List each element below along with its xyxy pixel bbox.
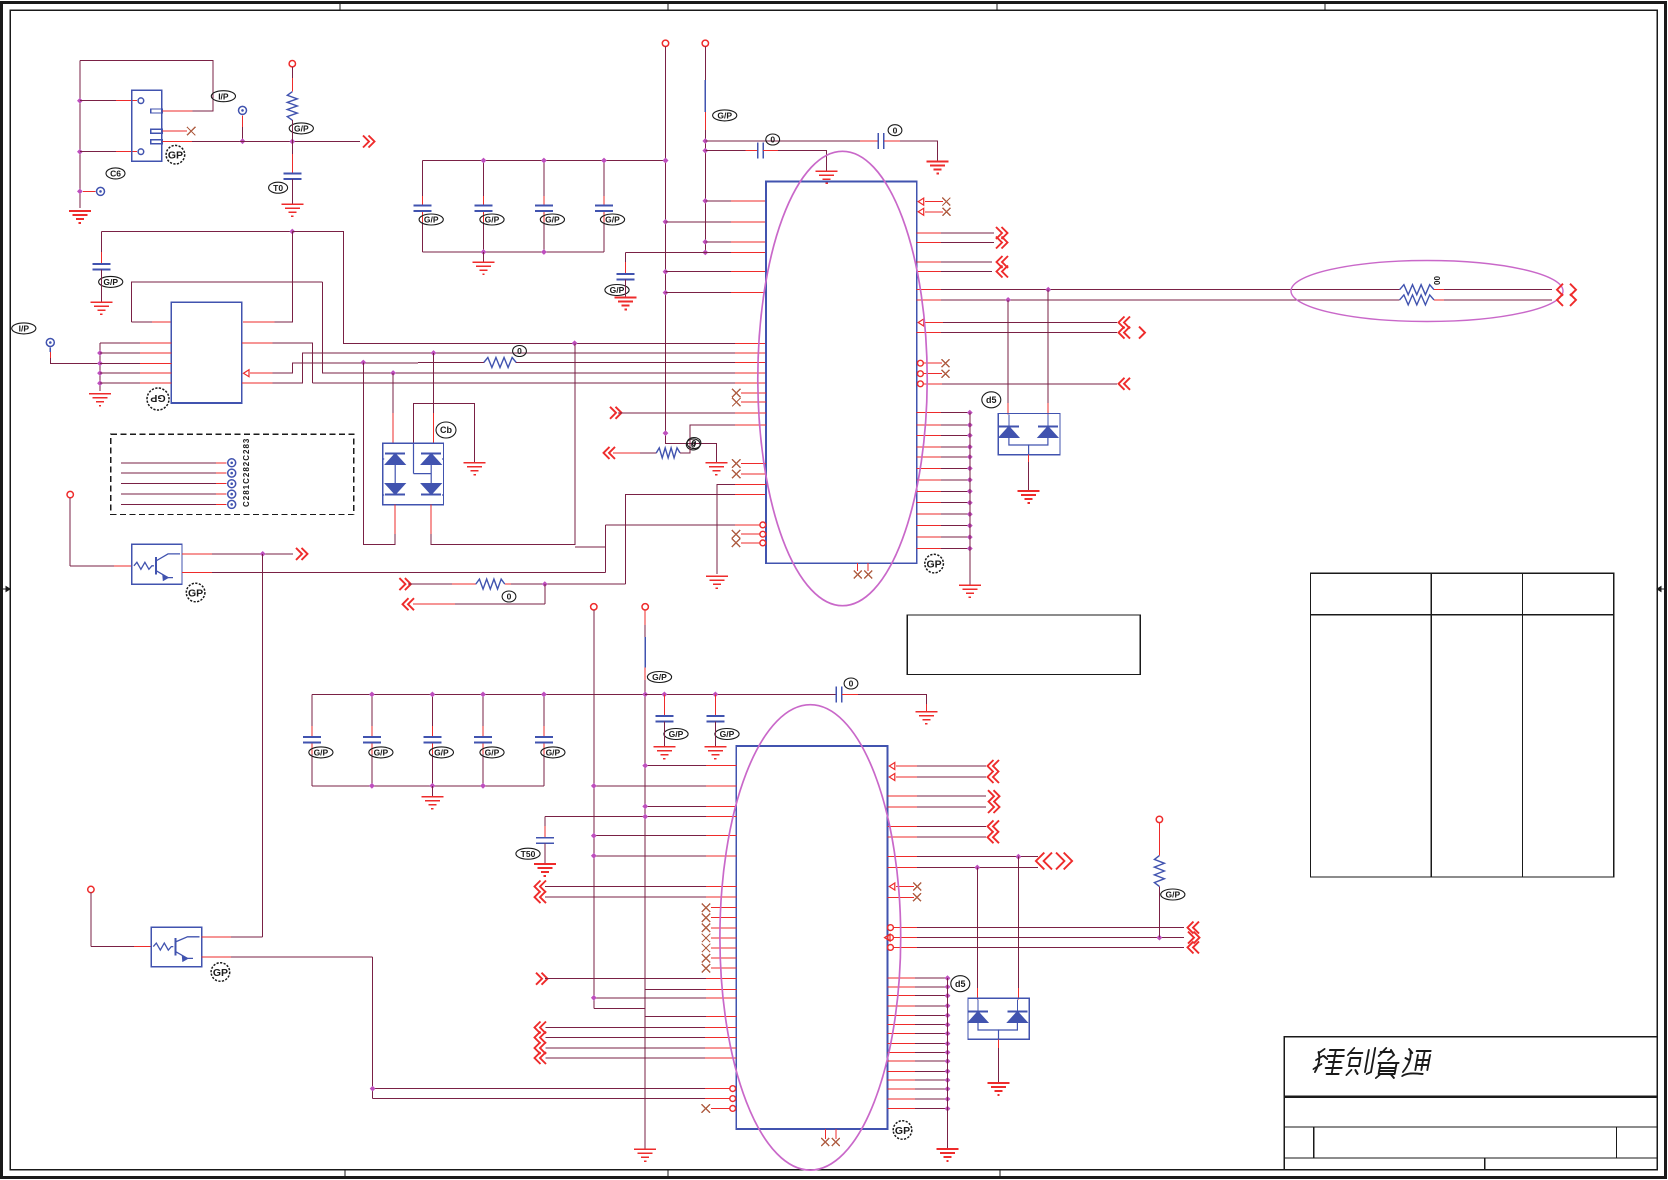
junction ext 2 — [713, 692, 719, 698]
diode D2b — [1038, 427, 1058, 438]
wire cap CB row — [705, 150, 745, 152]
wire R4 row — [613, 452, 640, 454]
wire bus line1 to IC1 — [344, 231, 735, 343]
label GP of J1 — [166, 145, 185, 164]
wire U2 pin y1098 — [373, 1098, 706, 1100]
pin circle U1 y363 — [918, 360, 924, 366]
wire cap bank bottom bus — [423, 251, 604, 253]
clk pin U1 y211 — [918, 208, 924, 215]
wire R4 to pin — [680, 425, 735, 453]
wire U2 pin y897 — [545, 896, 706, 898]
junction vertA end — [663, 430, 669, 436]
wire cap CA row — [705, 140, 860, 142]
label G/P CC — [605, 285, 629, 296]
label T50 CG — [516, 848, 540, 859]
wire U2 out y867 — [888, 867, 917, 869]
label Cb bridge — [436, 422, 456, 438]
junction y290 — [1045, 287, 1051, 293]
ground G4 below Q3 bus — [89, 394, 111, 406]
label CF — [844, 678, 858, 689]
junction U2 bus pin 11 — [945, 1068, 951, 1074]
junction U2 bus pin 3 — [945, 993, 951, 999]
no-connect stub U2 nc6 — [702, 954, 711, 963]
junction U2 bus pin 8 — [945, 1041, 951, 1047]
label I/P left edge — [12, 323, 36, 334]
wire U2 out y826 — [888, 825, 917, 827]
border zone tick bottom 1 — [344, 1170, 346, 1178]
label G/P blue seg — [713, 110, 737, 121]
junction bank top 4 — [663, 158, 669, 164]
no-connect stub U2 y1108 — [701, 1104, 710, 1113]
off-page arrow U2 ch2 — [535, 1032, 547, 1044]
wire R1 top — [291, 67, 293, 78]
wire Q3 left pin 5 — [100, 382, 140, 384]
off-page arrow U2 y897 — [535, 891, 547, 903]
connector point CP2 — [239, 106, 247, 114]
svg-text:GP: GP — [168, 150, 183, 162]
junction U2 bus pin 13 — [945, 1086, 951, 1092]
off-page arrows R6 end — [1557, 294, 1563, 306]
svg-text:G/P: G/P — [294, 123, 309, 133]
junction U1 bus pin 11 — [967, 523, 973, 529]
ground G1 below J1 — [69, 211, 91, 223]
wire loop down to Q3 right — [274, 232, 292, 323]
wire option pin 5 — [121, 503, 216, 505]
wire bottom vertical A — [593, 610, 595, 1008]
label G/P R7 — [1161, 889, 1185, 900]
junction line3 bridge — [360, 360, 366, 366]
title block line2 — [1284, 1126, 1657, 1128]
wire C12 column — [543, 161, 545, 197]
wire Q2 out2 — [202, 956, 231, 958]
junction A y292 — [663, 290, 669, 296]
junction y857 — [1016, 854, 1022, 860]
junction x594 y998 — [591, 995, 597, 1001]
junction B y141 — [702, 138, 708, 144]
label R2 on line3 — [513, 346, 527, 357]
wire C22 column — [431, 694, 433, 726]
svg-text:G/P: G/P — [485, 215, 500, 225]
junction U2 bus pin 10 — [945, 1058, 951, 1064]
no-connect stub U1 bottom 1 — [857, 563, 859, 571]
ground G20 U2 bus — [937, 1149, 959, 1161]
wire inter-transistor vertical — [262, 554, 264, 937]
wire Q2 out1 up — [202, 936, 231, 938]
wire U1 bus pin 6 — [917, 467, 941, 469]
label C near G10 — [686, 439, 700, 450]
connector point option 3 — [228, 480, 236, 488]
wire Q1 out1 — [182, 553, 212, 555]
wire U2 pin y786 — [594, 785, 706, 787]
capacitor C11 — [475, 206, 493, 212]
clk pin U1 y322 — [918, 319, 924, 326]
wire R6 out — [1434, 299, 1444, 301]
junction bank2 bottom 3 — [480, 783, 486, 789]
ground G5 bridge — [464, 463, 486, 475]
ground G9 below CC — [615, 298, 637, 310]
wire U2 bus pin 13 — [888, 1088, 915, 1090]
ground G6 cap bank — [473, 262, 495, 274]
wire U2 pin y765 — [645, 765, 706, 767]
wire U1 pin y484 — [717, 485, 735, 574]
wire cap bank top bus — [423, 160, 666, 162]
off-page arrow U2 y978 — [536, 973, 548, 985]
no-connect stub U2 nc7 — [702, 964, 711, 973]
wire Q3 left pin 4 — [100, 372, 140, 374]
svg-text:I/P: I/P — [19, 323, 30, 333]
wire CG ground — [544, 843, 546, 864]
junction bank top 2 — [541, 158, 547, 164]
wire D3 ground — [998, 1039, 1000, 1048]
svg-text:G/P: G/P — [424, 215, 439, 225]
junction x645 y817 — [642, 814, 648, 820]
junction U1 bus pin 4 — [967, 444, 973, 450]
wire Q3 right pin3 — [242, 382, 273, 384]
connector point option 5 — [228, 500, 236, 508]
pin circle U1 y383 — [918, 381, 924, 387]
off-page arrow U2r y837 — [988, 831, 1000, 843]
capacitor C12 — [535, 206, 553, 212]
wire second loop y282 — [132, 282, 323, 322]
ground G12 U1 bus — [959, 585, 981, 597]
wire top loop to Q3 right pin — [101, 231, 292, 233]
pin circle U2 y1088 — [730, 1086, 736, 1092]
no-connect stub U1 y474 — [732, 470, 741, 479]
capacitor CD — [655, 716, 673, 722]
label C6 below J1 — [106, 168, 125, 179]
svg-text:d5: d5 — [955, 979, 966, 989]
off-page arrow y322 — [1119, 317, 1131, 329]
junction bank bottom 1 — [481, 249, 487, 255]
resistor R3 — [476, 579, 505, 589]
diode bridge inner rails — [374, 443, 443, 483]
wire U2 pin y1016 — [594, 1007, 645, 1009]
junction top loop — [289, 229, 295, 235]
title block outline — [1284, 1037, 1657, 1170]
title block divider c — [1484, 1158, 1486, 1170]
connector point CP3 — [46, 339, 54, 347]
off-page arrow U2r y796 — [988, 790, 1000, 802]
junction B y200 — [702, 198, 708, 204]
pin circle U1 y543 — [760, 540, 766, 546]
capacitor C23 — [474, 737, 492, 743]
net ellipse highlight right — [1291, 261, 1563, 322]
capacitor CF series — [836, 686, 842, 702]
junction U1 bus pin 12 — [967, 534, 973, 540]
ground G2 below C2 — [281, 204, 303, 216]
wire J1 tab3 to node — [163, 141, 193, 143]
diode D2a — [999, 427, 1019, 438]
wire cap CG drop — [544, 817, 546, 826]
power terminal bottom B — [642, 604, 648, 610]
svg-text:G/P: G/P — [669, 729, 684, 739]
junction U2 bus pin 9 — [945, 1050, 951, 1056]
diode D1c — [385, 484, 405, 495]
off-page arrow U1 y412 — [610, 407, 622, 419]
off-page arrow right y141 — [363, 136, 375, 148]
svg-text:I/P: I/P — [218, 91, 229, 101]
diode array D1 body — [383, 443, 444, 504]
title block line3 — [1284, 1157, 1657, 1159]
no-connect stub U2 nc2 — [702, 913, 711, 922]
svg-text:G/P: G/P — [720, 729, 735, 739]
wire C10 column — [422, 161, 424, 197]
border zone tick top 3 — [996, 3, 998, 11]
clk pin U2 y766 — [889, 763, 895, 770]
junction ext 1 — [662, 692, 668, 698]
capacitor C24 — [535, 737, 553, 743]
svg-text:0: 0 — [692, 438, 697, 448]
label G/P C11 — [480, 214, 504, 225]
junction A y221 — [663, 219, 669, 225]
junction U2 bus pin 2 — [945, 984, 951, 990]
svg-text:G/P: G/P — [1165, 890, 1180, 900]
wire U2 bus pin 11 — [888, 1070, 915, 1072]
wire U2 pin y998 — [594, 997, 706, 999]
power terminal bottom A — [591, 604, 597, 610]
wire C23 column — [482, 694, 484, 726]
label G/P blue seg2 — [647, 672, 671, 683]
no-connect stub U2 nc1 — [702, 903, 711, 912]
off-page arrow y233 — [996, 227, 1008, 239]
wire vertA ground leg — [666, 433, 717, 462]
wire D3 left drop — [976, 868, 978, 989]
off-page arrow U2 y886 — [535, 881, 547, 893]
svg-text:GP: GP — [150, 392, 165, 404]
table outline — [1311, 573, 1614, 877]
junction y937 — [1157, 935, 1163, 941]
capacitor C20 — [303, 737, 321, 743]
wire U2 bus pin 5 — [888, 1014, 915, 1016]
pin circle U1 y525 — [760, 522, 766, 528]
junction U2 bus pin 14 — [945, 1096, 951, 1102]
wire C13 column — [603, 161, 605, 197]
junction U1 bus pin 10 — [967, 511, 973, 517]
transistor Q1 symbol — [134, 554, 180, 580]
wire J1 left vertical — [79, 60, 81, 208]
wire U1 bus pin 8 — [917, 490, 941, 492]
diode pair D2 inner — [1009, 438, 1048, 455]
power terminal top B — [702, 40, 708, 46]
wire U1 out y332 — [917, 332, 941, 334]
label CA — [888, 125, 902, 136]
junction A y271 — [663, 269, 669, 275]
junction bank2 bottom 1 — [369, 783, 375, 789]
IC U1 highlight ellipse — [758, 151, 927, 605]
wire bus line2 to IC1 — [312, 352, 735, 354]
off-page arrow out R3b — [403, 598, 415, 610]
ground G17 CF — [915, 712, 937, 724]
wire U2 bus pin 14 — [888, 1098, 915, 1100]
wire CP2 drop — [242, 116, 244, 128]
svg-text:G/P: G/P — [610, 285, 625, 295]
off-page arrow in R3 — [399, 578, 411, 590]
border zone tick top 2 — [667, 3, 669, 11]
ground G16 CE — [704, 747, 726, 759]
svg-text:G/P: G/P — [545, 215, 560, 225]
wire CP1 — [83, 190, 96, 192]
pin circle U1 y373 — [918, 371, 924, 377]
label R4 — [687, 438, 701, 449]
wire bus line4 to IC1 — [322, 282, 735, 373]
junction Q2 branch — [370, 1086, 376, 1092]
clk pin U2 y777 — [889, 774, 895, 781]
junction bus2 — [97, 350, 103, 356]
wire U2 pin ch2 — [546, 1037, 706, 1039]
label I/P near J1 — [211, 91, 235, 102]
svg-text:G/P: G/P — [717, 110, 732, 120]
junction y867 — [974, 865, 980, 871]
junction bank2 bottom 2 — [430, 783, 436, 789]
clk pin circle U2 y937 — [885, 934, 891, 941]
junction U2 bus pin 6 — [945, 1022, 951, 1028]
wire U2 bus pin 2 — [888, 986, 915, 988]
wire U1 bus pin 4 — [917, 446, 941, 448]
wire cap bank2 bottom bus — [312, 785, 544, 787]
label G/P C20 — [309, 747, 333, 758]
wire option pin 1 — [121, 462, 216, 464]
no-connect stub U1 y543 — [732, 539, 741, 548]
wire IC1 pin y201 — [705, 200, 731, 202]
svg-text:C6: C6 — [110, 168, 121, 178]
capacitor CC — [617, 274, 635, 280]
border zone tick top 4 — [1324, 3, 1326, 11]
power terminal above R1 — [289, 61, 295, 67]
no-connect stub U1 y534 — [732, 530, 741, 539]
pin circle U2 y947 — [888, 945, 894, 951]
wire U2 out y857 — [888, 856, 917, 858]
junction U1 bus pin 3 — [967, 433, 973, 439]
off-page arrow y383 — [1119, 378, 1131, 390]
wire Q3 right pin2 clk — [244, 370, 250, 377]
wire C2 to ground — [291, 179, 293, 204]
junction U1 bus pin 6 — [967, 466, 973, 472]
junction bus3 — [97, 361, 103, 367]
capacitor C3 — [92, 264, 110, 270]
svg-text:0: 0 — [517, 346, 522, 356]
connector point option 1 — [228, 459, 236, 467]
diode D1d — [421, 484, 441, 495]
wire IC1 pin y271 — [666, 271, 732, 273]
wire bottom vertical B — [644, 610, 646, 625]
label G/P C21 — [369, 747, 393, 758]
connector point option 2 — [228, 469, 236, 477]
wire bridge top-mid to ground — [414, 403, 475, 462]
wire bank2 ground stem — [431, 786, 433, 797]
wire cap CA right — [884, 140, 900, 142]
off-page arrow U2r y927 — [1188, 922, 1200, 934]
wire U2 out y807 — [888, 806, 917, 808]
svg-text:G/P: G/P — [314, 747, 329, 757]
ground G15 CD — [653, 747, 675, 759]
junction bank top 3 — [601, 158, 607, 164]
wire U2 pin y856 — [594, 855, 706, 857]
wire U2 pin y978 — [545, 978, 706, 980]
svg-text:0: 0 — [849, 679, 854, 689]
off-page arrow U2 ch4 — [535, 1052, 547, 1064]
connector J1 body — [132, 90, 162, 161]
wire U2 pin y806 — [645, 805, 706, 807]
wire cap CB right — [763, 150, 778, 152]
wire J1 tab1 — [163, 110, 193, 112]
ground G8 capB — [816, 171, 838, 183]
svg-text:G/P: G/P — [546, 747, 561, 757]
wire U2 bus pin 10 — [888, 1060, 915, 1062]
label GP of Q1 — [186, 583, 205, 602]
wire U1 pin y412 — [618, 412, 735, 414]
clk pin U1 y201 — [918, 198, 924, 205]
junction x645 y765 — [642, 763, 648, 769]
wire bridge bottom-left — [394, 505, 396, 534]
wire J1 pin4 — [80, 151, 116, 153]
label GP of Q2 — [211, 963, 230, 982]
label GP of U1 — [925, 554, 944, 573]
svg-text:G/P: G/P — [434, 747, 449, 757]
label Q3 rotated — [147, 388, 169, 410]
wire Q1 out2 — [182, 572, 212, 574]
wire Q3 left bus vertical — [99, 343, 101, 391]
label G/P CD — [664, 729, 688, 740]
resistor R6 — [1400, 295, 1434, 305]
label CB — [766, 134, 780, 145]
off-page arrow y242 — [996, 237, 1008, 249]
no-connect stub U1 y402 — [732, 398, 741, 407]
connector point CP1 — [97, 187, 105, 195]
table column line 1 — [1430, 573, 1432, 877]
dashed option box — [111, 434, 354, 514]
svg-text:GP: GP — [213, 967, 228, 979]
wire Q3 left pin 2 — [100, 352, 140, 354]
transistor Q1 box — [132, 544, 182, 584]
capacitor C22 — [423, 737, 441, 743]
wire U1 bus pin 5 — [917, 456, 941, 458]
wire Q3 left pin 3 — [100, 362, 140, 364]
wire U2 pin ch3 — [546, 1047, 706, 1049]
wire D2 ground — [1028, 455, 1030, 462]
wire U1 long out y300 — [917, 299, 941, 301]
svg-text:C281C282C283: C281C282C283 — [242, 438, 251, 507]
label G/P right of C3 — [99, 276, 123, 287]
junction U1 bus pin 7 — [967, 477, 973, 483]
no-connect stub U2 nc5 — [702, 944, 711, 953]
svg-text:T50: T50 — [521, 849, 536, 859]
label G/P C23 — [480, 747, 504, 758]
wire node to C2 — [291, 142, 293, 155]
no-connect stub U2 bottom 1 — [824, 1129, 826, 1139]
off-page arrow U2r y947 — [1188, 941, 1200, 953]
off-page arrow U2r y826 — [988, 820, 1000, 832]
off-page arrow y332b — [1139, 327, 1145, 339]
label G/P C12 — [540, 214, 564, 225]
no-connect stub U1 y393 — [732, 389, 741, 398]
wire loop J1 top — [80, 60, 213, 111]
IC U1 body — [766, 182, 917, 564]
ground G3 below C3 — [90, 302, 112, 314]
wire U2 bus pin 3 — [888, 995, 915, 997]
border zone tick bottom 3 — [999, 1170, 1001, 1178]
wire J1 tab2 stub — [163, 130, 188, 132]
table header line — [1311, 614, 1614, 616]
wire R7 bottom — [1158, 886, 1160, 937]
wire top vertical B — [704, 47, 706, 81]
resistor R5 — [1400, 285, 1434, 295]
border center arrow right edge — [1657, 587, 1664, 592]
label d5 of D2 — [982, 392, 1001, 408]
wire U2 bus pin 7 — [888, 1033, 915, 1035]
company name glyphs — [1312, 1048, 1431, 1078]
wire U2 pin y836 — [594, 835, 706, 837]
capacitor CE — [706, 716, 724, 722]
